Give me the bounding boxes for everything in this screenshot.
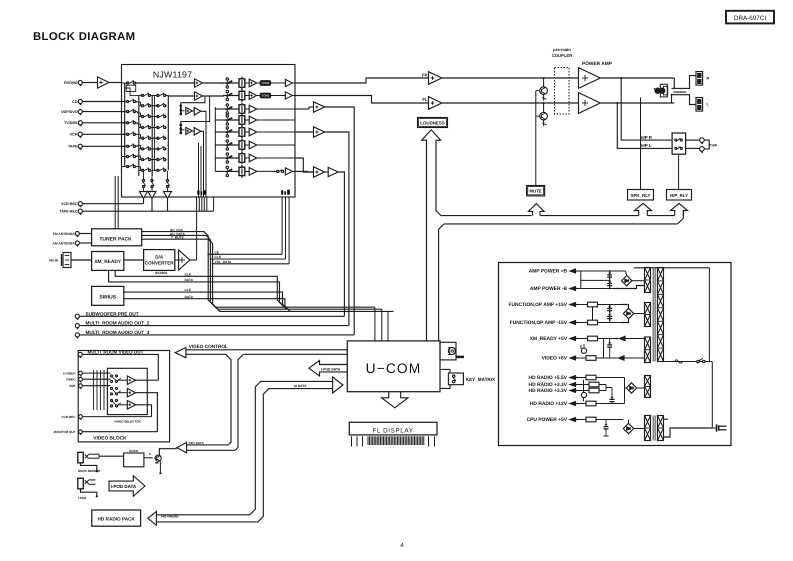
input selector switch matrix column 2	[139, 93, 152, 176]
ipod data arrow to ucom	[309, 361, 347, 376]
volume channel row 7 switch	[215, 153, 232, 163]
svg-text:HD RADIO +3.3V: HD RADIO +3.3V	[529, 382, 568, 388]
svg-text:HD RADIO PACK: HD RADIO PACK	[97, 517, 135, 522]
psu output FUNCTION,OP AMP -15V	[510, 320, 578, 326]
tone control block row 1	[257, 81, 271, 86]
svg-text:CLK: CLK	[185, 288, 192, 292]
volume channel row 6 attenuator	[223, 139, 245, 152]
psu output HD RADIO +5.5V	[529, 375, 578, 381]
svg-text:AMP POWER -B: AMP POWER -B	[530, 286, 568, 292]
svg-text:D/A: D/A	[155, 254, 164, 259]
video buffer amp 2	[118, 388, 136, 397]
volume channel row 7 attenuator	[223, 152, 245, 165]
key matrix block	[440, 369, 496, 388]
wire rec selector to TAPE-REC jack	[152, 199, 168, 212]
MULTI ROOM AUDIO OUT 2 jack	[75, 321, 349, 329]
svg-text:HD RADIO +12V: HD RADIO +12V	[530, 401, 568, 407]
wire FR to headphone relay	[620, 77, 672, 140]
svg-text:DATA: DATA	[185, 278, 194, 282]
wire NJW FR out	[295, 78, 429, 83]
svg-text:FUNCTION,OP AMP -15V: FUNCTION,OP AMP -15V	[510, 320, 568, 326]
FM antenna terminal	[53, 231, 92, 237]
volume channel row 5 buffer	[245, 128, 257, 136]
svg-text:AK4358: AK4358	[155, 271, 167, 275]
volume channel row 5 attenuator	[223, 126, 245, 139]
MULTI ROOM AUDIO OUT 3 jack	[75, 330, 354, 338]
svg-text:AI DATA: AI DATA	[294, 384, 307, 388]
row 3 output wire	[257, 108, 295, 110]
psu output AMP POWER -B	[530, 286, 578, 292]
wire FL to headphone relay	[616, 102, 672, 148]
svg-text:PHONO: PHONO	[64, 81, 78, 85]
psu ac top routing wire	[634, 268, 709, 362]
D/A CONVERTER block	[144, 250, 175, 276]
model number box DRA-697CI	[726, 11, 774, 24]
row 6 output wire	[257, 144, 295, 146]
svg-text:H/P L: H/P L	[641, 143, 652, 148]
psu output VIDEO +6V	[542, 356, 578, 362]
svg-text:I-POD: I-POD	[78, 496, 87, 500]
volume channel row 4 switch	[215, 115, 232, 125]
svg-text:H/P_RLY: H/P_RLY	[670, 193, 688, 198]
input selector switch matrix column 1	[122, 81, 137, 168]
volume channel row 6 buffer	[245, 141, 257, 149]
svg-text:SUBWOOFER PRE OUT: SUBWOOFER PRE OUT	[86, 311, 139, 316]
mute transistor Q1	[540, 77, 548, 101]
input selector switch matrix column 3	[152, 93, 168, 176]
volume channel row 1 buffer	[245, 79, 257, 87]
svg-text:FUNCTION,OP AMP +15V: FUNCTION,OP AMP +15V	[509, 302, 568, 308]
volume channel row 5 switch	[215, 127, 232, 137]
svg-text:NJW1197: NJW1197	[153, 69, 192, 79]
H/P L label	[641, 143, 652, 148]
NJW output drop wires	[325, 107, 355, 335]
svg-text:CE: CE	[215, 250, 219, 254]
SPK_RLY block	[628, 98, 654, 201]
power supply block outline	[499, 263, 732, 446]
svg-text:VCR-REC: VCR-REC	[61, 202, 78, 206]
volume channel row 8 attenuator	[223, 165, 245, 178]
buffer pair B	[186, 127, 201, 135]
microcontroller U-COM box	[347, 341, 440, 392]
dsp pin risers to rec bus	[197, 197, 207, 261]
volume channel row 4 buffer	[245, 116, 257, 124]
transformer T2 standby	[645, 416, 664, 441]
wire mute control	[536, 91, 540, 186]
matrix staircase interconnects column1 to column2	[136, 102, 141, 171]
svg-text:TAPE: TAPE	[68, 145, 78, 149]
transformer T1 core	[653, 268, 655, 362]
FL display pins	[352, 436, 435, 446]
pre-main coupler dashed box	[555, 68, 570, 115]
svg-text:CLK: CLK	[185, 272, 192, 276]
SIRIUS block	[92, 286, 124, 305]
psu output HD RADIO +3.3V	[529, 388, 578, 394]
svg-text:SPK_RLY: SPK_RLY	[631, 193, 651, 198]
svg-text:CPU POWER +5V: CPU POWER +5V	[527, 417, 568, 423]
psu output CPU POWER +5V	[527, 417, 578, 423]
bottom middle pin marks	[197, 190, 206, 194]
row feed bus	[126, 85, 215, 171]
svg-text:VCR: VCR	[70, 133, 78, 137]
svg-text:TV/DBS: TV/DBS	[64, 121, 78, 125]
volume data pin drop wires	[282, 197, 289, 264]
svg-text:MUTE: MUTE	[529, 189, 542, 194]
input terminal PHONO	[64, 80, 98, 86]
svg-text:S-VIDEO: S-VIDEO	[63, 371, 76, 375]
mute transistor Q2	[540, 102, 548, 126]
line out buffer D	[295, 127, 325, 137]
dock connector	[78, 452, 123, 473]
svg-text:T_MUTE: T_MUTE	[171, 236, 184, 240]
tone control block row 2	[257, 93, 271, 98]
power amp FR	[579, 68, 675, 89]
rec output terminal VCR-REC	[61, 202, 143, 208]
svg-text:U−COM: U−COM	[366, 361, 422, 376]
svg-text:TONE: TONE	[262, 81, 270, 85]
svg-text:DOCK SENSOR: DOCK SENSOR	[78, 469, 101, 473]
svg-text:VOL_DATA: VOL_DATA	[215, 260, 232, 264]
monitor out jack	[54, 430, 158, 435]
middle buffer amp FL	[195, 92, 225, 100]
svg-text:XM_READY +5V: XM_READY +5V	[530, 336, 568, 342]
mute control hollow arrow	[529, 204, 545, 216]
LOUDNESS block	[418, 118, 448, 128]
svg-text:DATA: DATA	[185, 295, 194, 299]
volume channel row 3 switch	[215, 104, 232, 114]
svg-text:FR: FR	[422, 73, 428, 78]
svg-text:VCR-REC: VCR-REC	[61, 415, 76, 419]
psu output XM_READY +5V	[530, 336, 578, 342]
post tone buffer row 2	[271, 92, 295, 99]
svg-text:VDP/DVD: VDP/DVD	[61, 110, 78, 114]
svg-text:CONVERTER: CONVERTER	[145, 260, 175, 265]
video switch row 2	[111, 387, 122, 395]
video rec out jack	[61, 415, 151, 420]
input terminal CD	[72, 99, 127, 105]
volume channel row 8 switch	[215, 166, 232, 176]
video block outline	[78, 351, 169, 442]
video amp output wires	[136, 380, 159, 432]
svg-text:POWER AMP: POWER AMP	[582, 61, 613, 67]
tuner audio input risers	[115, 176, 118, 229]
row 4 output wire	[257, 119, 295, 121]
svg-text:HD RADIO +5.5V: HD RADIO +5.5V	[529, 375, 568, 381]
video input S-VIDEO	[63, 371, 111, 376]
XM data labels	[185, 272, 194, 282]
volume channel row 2 buffer	[245, 92, 257, 100]
row 5 output wire	[257, 131, 295, 133]
pre amp FL	[422, 97, 578, 110]
psu output HD RADIO +3.3V	[529, 382, 578, 388]
volume control data labels	[215, 250, 232, 264]
svg-text:XM_READY: XM_READY	[94, 259, 121, 265]
middle buffer amp FR	[195, 79, 225, 87]
video inner switch box	[107, 368, 147, 423]
FL DISPLAY block	[349, 422, 437, 435]
svg-text:AMP POWER +B: AMP POWER +B	[529, 269, 568, 275]
TUNER PACK block	[92, 229, 142, 246]
psu output FUNCTION,OP AMP +15V	[509, 302, 578, 308]
svg-text:VIDEO SELECTOR: VIDEO SELECTOR	[114, 420, 141, 424]
psu group3 xm video regulators	[578, 336, 645, 360]
svg-text:FL DISPLAY: FL DISPLAY	[373, 427, 414, 434]
line out buffer C	[295, 102, 325, 112]
svg-text:TONE: TONE	[262, 94, 270, 98]
pre amp FR	[422, 72, 579, 85]
POWER AMP label	[582, 61, 613, 67]
volume channel row 6 switch	[215, 140, 232, 150]
svg-text:KEY_MATRIX: KEY_MATRIX	[466, 377, 496, 382]
video crossing bus	[94, 370, 105, 410]
H/P_RLY block	[667, 155, 692, 201]
svg-text:FM ANTENNA: FM ANTENNA	[53, 232, 75, 236]
H/P R label	[641, 135, 653, 140]
row 8 output switch and buffer	[257, 168, 295, 175]
speaker terminal L	[696, 98, 710, 112]
power amp FL	[579, 93, 675, 114]
row 7 output wire	[257, 157, 295, 159]
wire NJW FL out	[295, 96, 429, 104]
page number 4	[400, 542, 404, 549]
muting element A	[179, 96, 204, 115]
volume channel row 3 attenuator	[223, 103, 245, 116]
record out selector switches	[142, 171, 169, 188]
MUTE block	[527, 186, 545, 196]
XM_READY block	[92, 252, 144, 271]
svg-text:FL: FL	[422, 97, 428, 102]
loudness control hollow arrow and bus riser	[422, 130, 444, 341]
headphone relay box	[672, 133, 686, 154]
relay control bus horizontal	[442, 211, 684, 224]
psu output AMP POWER +B	[529, 269, 578, 275]
XM connector	[49, 253, 92, 268]
volume channel row 1 attenuator	[223, 77, 245, 90]
internal control bus verticals	[199, 111, 207, 196]
svg-text:I-POD DATA: I-POD DATA	[111, 484, 137, 489]
tuner data wires	[142, 232, 394, 312]
speaker relay control hollow arrow	[635, 203, 652, 215]
post tone buffer row 1	[271, 79, 295, 86]
hd radio hollow data path	[148, 377, 343, 525]
transformer T1 primary winding	[658, 268, 664, 362]
volume channel row 2 switch	[226, 90, 232, 100]
video switch row 3	[111, 400, 122, 408]
speaker relay contacts	[654, 78, 688, 103]
D/A output buffer	[175, 250, 197, 270]
svg-text:MULTI_ROOM AUDIO OUT_2: MULTI_ROOM AUDIO OUT_2	[86, 321, 150, 326]
volume channel row 1 switch	[226, 78, 232, 88]
svg-text:MONITOR OUT: MONITOR OUT	[54, 430, 76, 434]
speaker terminal R	[696, 72, 710, 86]
line out buffer pair E	[295, 158, 338, 177]
dock interface box	[124, 449, 153, 467]
svg-text:HD RADIO +3.3V: HD RADIO +3.3V	[529, 388, 568, 394]
XM data wires	[109, 270, 287, 309]
svg-text:TUNER PACK: TUNER PACK	[99, 237, 132, 243]
svg-text:VIDEO CONTROL: VIDEO CONTROL	[189, 344, 228, 349]
ac mains wiring	[661, 358, 727, 437]
psu output HD RADIO +12V	[530, 401, 578, 407]
volume channel row 8 buffer	[245, 168, 257, 176]
volume channel row 3 buffer	[245, 105, 257, 113]
reset circuit X1	[440, 342, 464, 360]
phono eq amp	[98, 77, 122, 88]
dock sense transistor	[155, 449, 177, 475]
matrix to middle buffer wires	[136, 83, 195, 96]
title BLOCK DIAGRAM	[33, 31, 135, 43]
video input VIDEO	[66, 377, 111, 382]
svg-text:R: R	[707, 76, 710, 80]
input terminal TAPE	[68, 144, 127, 150]
SUBWOOFER PRE OUT jack	[75, 311, 344, 319]
muting element B	[179, 96, 209, 134]
svg-text:H/P R: H/P R	[641, 135, 653, 140]
svg-text:DOCK: DOCK	[129, 449, 139, 453]
video buffer amp 1	[118, 376, 136, 385]
key scan hollow arrow	[177, 441, 235, 453]
svg-text:BLOCK DIAGRAM: BLOCK DIAGRAM	[33, 31, 135, 43]
video control hollow arrow	[175, 348, 347, 358]
svg-text:CD: CD	[72, 100, 78, 104]
tuner data labels	[170, 228, 185, 240]
svg-text:HD RADIO: HD RADIO	[161, 514, 179, 518]
svg-text:D: D	[149, 452, 151, 456]
svg-text:VIDEO: VIDEO	[66, 377, 76, 381]
svg-text:VDP: VDP	[69, 384, 75, 388]
svg-text:AM ANTENNA: AM ANTENNA	[52, 241, 75, 245]
video input VDP	[69, 384, 110, 389]
psu group5 cpu power rectifier	[578, 417, 645, 436]
key scan branch	[226, 354, 244, 450]
sirius data labels	[185, 288, 194, 299]
svg-text:LOUDNESS: LOUDNESS	[420, 121, 444, 126]
svg-text:pre-main: pre-main	[553, 47, 571, 52]
volume channel row 7 buffer	[245, 154, 257, 162]
ipod data hollow arrow	[109, 476, 145, 497]
ipod connector	[78, 478, 98, 500]
svg-text:COUPLER: COUPLER	[552, 53, 572, 58]
VIDEO CONTROL label	[189, 344, 228, 349]
AM antenna terminal	[52, 241, 91, 247]
svg-text:VIDEO +6V: VIDEO +6V	[542, 356, 568, 362]
wire rec selector to VCR-REC jack	[143, 199, 145, 204]
transformer T1 secondary windings	[645, 268, 651, 398]
volume control data wires CE CLK VOL_DATA	[207, 253, 289, 264]
wire relay to speaker terminals	[688, 76, 697, 105]
svg-text:MULTI_ROOM VIDEO OUT: MULTI_ROOM VIDEO OUT	[88, 350, 144, 355]
IC U1 NJW1197 outline	[122, 65, 296, 198]
input terminal VCR	[70, 132, 127, 138]
rec output terminal TAPE-REC	[59, 197, 213, 215]
svg-text:VIDEO BLOCK: VIDEO BLOCK	[93, 436, 127, 442]
pre-main coupler label	[552, 47, 572, 58]
svg-text:SIRIUS: SIRIUS	[99, 294, 116, 300]
sirius data wires	[124, 292, 290, 311]
headphone relay control hollow arrow	[671, 203, 688, 215]
psu group2 op amp rectifier	[578, 302, 645, 325]
bottom right volume data pin marks	[281, 190, 290, 195]
HD RADIO PACK block	[92, 510, 141, 526]
video switch row 1	[111, 375, 122, 383]
psu group1 amp power rectifier	[578, 270, 645, 289]
psu group4 hd radio regulators	[578, 375, 645, 406]
MULTI ROOM VIDEO OUT jack	[78, 350, 158, 381]
input terminal TV/DBS	[64, 121, 127, 127]
svg-text:XM IN: XM IN	[49, 259, 59, 263]
video buffer amp 3	[118, 401, 136, 410]
svg-text:DRA-697CI: DRA-697CI	[734, 15, 766, 22]
svg-text:MULTI_ROOM AUDIO OUT_3: MULTI_ROOM AUDIO OUT_3	[86, 330, 150, 335]
record out buffer triangles	[140, 187, 172, 199]
svg-text:I-POD DATA: I-POD DATA	[321, 367, 341, 371]
input terminal VDP/DVD	[61, 110, 127, 116]
svg-text:H/P: H/P	[712, 144, 718, 148]
ucom data bus drops	[375, 307, 388, 341]
volume channel row 4 attenuator	[223, 114, 245, 127]
svg-text:TAPE-REC: TAPE-REC	[59, 210, 78, 214]
matrix staircase interconnects column2 to column3	[125, 88, 158, 170]
ucom to display hollow arrow	[382, 392, 408, 408]
buffer pair A	[186, 107, 201, 115]
svg-text:KEY DATA: KEY DATA	[189, 441, 205, 445]
svg-text:CLK: CLK	[215, 255, 222, 259]
headphone jack	[686, 138, 718, 153]
volume channel row 2 attenuator	[223, 89, 245, 102]
